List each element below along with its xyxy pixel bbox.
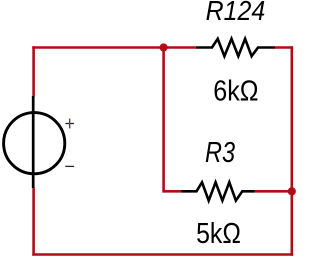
label 6kΩ xyxy=(213,75,258,107)
wire: bottom horizontal xyxy=(32,253,293,256)
resistor R3 xyxy=(182,182,255,200)
wire: top horizontal right segment xyxy=(275,46,293,49)
wire: top horizontal left segment xyxy=(32,46,196,49)
label R3 xyxy=(205,137,235,169)
wire: middle vertical from top node to R3 xyxy=(162,48,165,192)
node: junction at top xyxy=(160,43,168,51)
svg-text:6kΩ: 6kΩ xyxy=(213,75,258,107)
node: junction at right xyxy=(288,187,296,195)
label R124 xyxy=(206,0,266,26)
svg-text:R124: R124 xyxy=(206,0,266,26)
svg-text:R3: R3 xyxy=(205,137,235,169)
wire: right vertical xyxy=(290,46,293,256)
svg-text:5kΩ: 5kΩ xyxy=(196,218,241,250)
wire: left vertical upper segment xyxy=(32,46,35,96)
resistor R124 xyxy=(196,39,275,56)
wire: left vertical lower segment xyxy=(32,188,35,256)
wire: R3 left red segment xyxy=(162,190,181,193)
voltage source V1 xyxy=(4,96,75,188)
label 5kΩ xyxy=(196,218,241,250)
wire: R3 right red segment xyxy=(255,190,292,193)
